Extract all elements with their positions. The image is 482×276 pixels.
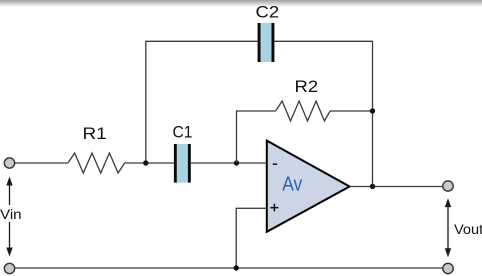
wire: C2 right down feedback line to output node [274, 41, 372, 186]
svg-text:R2: R2 [295, 77, 319, 96]
wire: op-amp non-inverting input from bottom rail [236, 208, 267, 268]
pin label plus [270, 204, 278, 212]
wire: node B riser to R2 left [237, 111, 276, 163]
resistor R2 [276, 101, 331, 121]
junction: R2 right on feedback line [370, 108, 375, 113]
Vin arrow [6, 177, 12, 257]
output node junction [370, 184, 375, 189]
wire: input terminal to R1 [15, 162, 68, 164]
top edge gradient bar [0, 0, 482, 7]
svg-text:C2: C2 [256, 3, 280, 22]
node B junction [234, 160, 239, 165]
terminal: input bottom [4, 263, 14, 273]
terminal: input top [4, 158, 14, 168]
bottom rail wire [15, 267, 443, 269]
svg-text:R1: R1 [83, 124, 107, 143]
svg-text:Av: Av [282, 174, 302, 196]
resistor R1 [68, 153, 125, 173]
junction: non-inverting lead on bottom rail [234, 265, 239, 270]
wire: R1 to C1 (through node A) [125, 162, 174, 164]
node A junction [143, 160, 148, 165]
terminal: output bottom [443, 263, 453, 273]
wire: node A riser to C2 [146, 41, 258, 163]
capacitor C2 [258, 23, 275, 62]
capacitor C1 [174, 144, 191, 183]
terminal: output top [443, 181, 453, 191]
svg-text:Vout: Vout [454, 221, 482, 237]
pin label minus [273, 163, 277, 165]
Vout arrow [445, 198, 451, 257]
wire: C1 to op-amp inverting input (through node B) [191, 162, 267, 164]
op-amp U1 [267, 141, 350, 232]
wire: R2 right to feedback line [330, 110, 372, 112]
svg-text:Vin: Vin [0, 206, 22, 222]
svg-text:C1: C1 [173, 123, 193, 142]
wire: op-amp output to output terminal [350, 186, 443, 188]
